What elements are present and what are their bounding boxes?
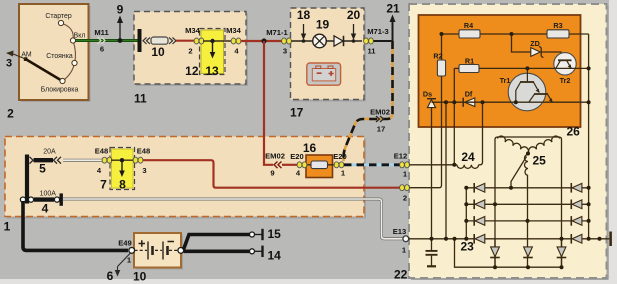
label M11 and pin 6 xyxy=(94,28,109,54)
resistor R3 xyxy=(547,21,569,38)
connector E48 pin 4 xyxy=(95,147,112,176)
wire 21 arrow up xyxy=(386,2,400,42)
label 23 xyxy=(461,240,475,254)
stator winding right xyxy=(529,136,560,153)
node Tr1 collector on lower row xyxy=(514,100,518,104)
svg-text:E13: E13 xyxy=(393,227,407,236)
svg-text:14: 14 xyxy=(268,249,282,263)
wire M11 (green) xyxy=(76,39,139,42)
wire R1 row through Tr2 to right rail xyxy=(479,67,589,69)
svg-text:19: 19 xyxy=(316,18,330,32)
svg-text:20A: 20A xyxy=(43,149,56,156)
svg-text:9: 9 xyxy=(270,169,274,178)
svg-text:11: 11 xyxy=(134,92,147,106)
labels M34 and pins xyxy=(185,26,242,56)
svg-text:M11: M11 xyxy=(94,28,109,37)
box 16 (orange, noise filter) xyxy=(303,155,336,178)
svg-text:17: 17 xyxy=(290,106,304,120)
connector EM02 pin 17 xyxy=(370,108,390,134)
rectifier diode D7 (row3 right) xyxy=(571,216,582,226)
wire 15 (thick black up-right) xyxy=(184,227,282,250)
svg-text:3: 3 xyxy=(283,47,287,56)
wire ZD drop from top rail xyxy=(512,34,531,52)
wire top rail of regulator xyxy=(442,33,589,35)
svg-text:2: 2 xyxy=(188,47,192,56)
box 26 (regulator, orange) xyxy=(419,15,581,127)
transistor Tr1 (darlington) xyxy=(500,68,553,110)
svg-text:Вкл: Вкл xyxy=(74,33,86,40)
node in box 8 with down arrow xyxy=(119,158,125,177)
svg-text:6: 6 xyxy=(107,269,114,283)
svg-text:1: 1 xyxy=(4,220,11,234)
node junction M11/9 xyxy=(118,38,123,43)
svg-text:M34: M34 xyxy=(226,26,242,35)
switch contact Starter xyxy=(58,20,63,25)
svg-text:R1: R1 xyxy=(465,57,474,66)
capacitor plates xyxy=(426,251,438,266)
connector E20 pin 4 xyxy=(290,152,307,178)
box 17 (dashed) xyxy=(291,8,367,102)
battery bus bar (thick) xyxy=(25,155,29,204)
connector E20 pin 1 xyxy=(333,152,347,178)
rectifier diode D4 (row4 left) xyxy=(474,234,485,244)
svg-text:Tr2: Tr2 xyxy=(560,76,571,85)
ignition switch arc xyxy=(61,23,76,81)
node M71-1 junction xyxy=(261,38,266,43)
wire Ds-Df row through Tr1 to right rail xyxy=(432,101,589,103)
connector M34 pin 4 xyxy=(231,38,241,44)
connector E13 pin 1 xyxy=(393,227,409,255)
svg-text:ZD: ZD xyxy=(530,39,540,48)
connector M34 pin 2 xyxy=(194,38,204,44)
diode in box 17 xyxy=(334,36,344,46)
wire M34 to M71 junction (red) xyxy=(241,40,283,42)
wire 3 to arrow left xyxy=(6,51,26,70)
junction dots alternator xyxy=(430,32,602,269)
node in box 13 with down arrow xyxy=(210,39,216,59)
wire R1 left riser to rotor node xyxy=(453,68,455,164)
arrow 20 into wire xyxy=(347,8,361,43)
svg-text:11: 11 xyxy=(367,47,376,56)
svg-text:22: 22 xyxy=(394,268,408,282)
svg-text:24: 24 xyxy=(461,150,475,164)
wire fuse4 to E13 (gray double) xyxy=(63,199,403,239)
svg-text:13: 13 xyxy=(205,64,219,78)
wire 14 (thick black right) xyxy=(184,246,281,263)
svg-text:18: 18 xyxy=(297,8,311,22)
svg-text:Ds: Ds xyxy=(423,90,432,99)
connector E48 pin 3 xyxy=(133,147,150,176)
wire E12-1 to rotor coil xyxy=(409,164,457,166)
svg-text:5: 5 xyxy=(39,162,46,176)
wire regulator mid drop to ground rail xyxy=(445,102,447,239)
rectifier diode D10 (bottom center) xyxy=(523,247,533,258)
battery polarity signs xyxy=(139,240,175,247)
svg-text:7: 7 xyxy=(100,178,107,192)
connector E49 pin 1 xyxy=(118,239,134,265)
switch contact Blokirovka xyxy=(60,78,65,83)
fuse 5 (20A) xyxy=(30,149,62,176)
switch contact Vkl xyxy=(70,38,75,43)
wire left branch R2 / E12-2 riser xyxy=(409,34,441,188)
svg-text:12: 12 xyxy=(185,64,199,78)
fuse 10 body xyxy=(143,37,176,59)
fuse 4 (100A) xyxy=(28,190,63,215)
arrow 18 into wire xyxy=(297,8,311,43)
svg-text:2: 2 xyxy=(7,107,14,121)
rectifier diode D2 (row2 left) xyxy=(474,200,485,210)
rectifier diode D3 (row3 left) xyxy=(474,216,485,226)
label 24 xyxy=(461,150,475,164)
svg-text:17: 17 xyxy=(377,125,385,134)
wire E20-1 to E12-1 (blue/black dashed) xyxy=(344,163,400,166)
box 13 (yellow relay) xyxy=(201,30,224,74)
svg-text:9: 9 xyxy=(117,3,124,17)
box 22 (alternator, dashed gray) xyxy=(409,4,609,280)
svg-text:Df: Df xyxy=(465,90,473,99)
rectifier diode D6 (row2 right) xyxy=(571,200,582,210)
bridge left rail xyxy=(465,188,467,239)
svg-text:6: 6 xyxy=(100,45,104,54)
label 25 xyxy=(533,154,547,168)
svg-text:R4: R4 xyxy=(464,21,473,30)
label 10 battery xyxy=(133,270,147,284)
svg-text:3: 3 xyxy=(6,58,12,70)
svg-text:25: 25 xyxy=(533,154,547,168)
capacitor leads xyxy=(431,239,433,266)
connector EM02 pin 9 xyxy=(265,152,285,178)
rectifier diode D9 (bottom left) xyxy=(490,247,500,258)
wire rotor coil to regulator (Df node) xyxy=(479,102,483,165)
svg-text:4: 4 xyxy=(42,202,49,216)
switch labels xyxy=(21,13,85,94)
switch contact Stoyanka xyxy=(72,60,77,65)
stator winding left xyxy=(497,136,528,153)
wire right rail (regulator/rectifier) xyxy=(588,34,590,239)
rectifier diode D5 (row1 right) xyxy=(571,183,582,193)
node terminal on bus (battery feed) xyxy=(20,197,25,202)
svg-text:E12: E12 xyxy=(394,152,408,161)
wire M71-3 to corner (black) xyxy=(374,40,393,42)
label 22 xyxy=(394,268,408,282)
svg-text:10: 10 xyxy=(151,45,165,59)
svg-text:R3: R3 xyxy=(553,21,562,30)
lamp 19 xyxy=(313,18,330,48)
box 2 (ignition switch) xyxy=(19,4,91,102)
battery box 10 xyxy=(134,233,183,270)
stator neutral tap xyxy=(511,157,527,188)
svg-text:20: 20 xyxy=(347,8,361,22)
label 2 xyxy=(7,107,14,121)
label 11 xyxy=(134,92,147,106)
svg-text:R2: R2 xyxy=(433,52,442,61)
diode Ds xyxy=(423,90,436,108)
wire ZD to Tr2 base xyxy=(541,52,561,60)
box 12 (dashed) xyxy=(200,29,226,75)
rectifier diode D1 (row1 left) xyxy=(474,183,485,193)
stator winding bottom xyxy=(525,155,529,239)
zener diode ZD xyxy=(530,39,543,58)
svg-text:16: 16 xyxy=(303,141,317,155)
wire to EM02-17 (yellow/black dashed) xyxy=(344,41,393,161)
fuse 10 input bar xyxy=(138,29,142,52)
resistor R4 xyxy=(459,21,480,38)
battery output node xyxy=(178,248,184,254)
wire Ds cathode lead down xyxy=(431,108,433,239)
bridge row 3 xyxy=(466,220,588,222)
connector M71-1 xyxy=(266,28,291,56)
connector M71-3 xyxy=(364,27,389,56)
svg-text:Стоянка: Стоянка xyxy=(46,53,73,60)
wire M71 junction down to EM02-9 (red) xyxy=(264,41,273,165)
svg-text:M34: M34 xyxy=(185,26,201,35)
box 1 (fuse block, dashed) xyxy=(5,137,366,219)
svg-text:Блокировка: Блокировка xyxy=(41,87,79,94)
svg-text:10: 10 xyxy=(133,270,147,284)
chassis terminal bar xyxy=(609,232,612,247)
svg-text:23: 23 xyxy=(461,240,475,254)
svg-text:E48: E48 xyxy=(95,147,109,156)
rotor coil 24 xyxy=(457,165,479,169)
wire through box 13 xyxy=(203,40,233,42)
rectifier diode D11 (bottom right) xyxy=(557,247,567,258)
connector E12 pin 2 xyxy=(400,185,410,203)
battery cells symbol xyxy=(135,242,179,260)
svg-text:26: 26 xyxy=(567,125,581,139)
svg-text:EM02: EM02 xyxy=(370,108,390,117)
connector M11 chevrons xyxy=(98,37,106,44)
svg-text:E49: E49 xyxy=(118,239,132,248)
box 8 (yellow relay) xyxy=(112,149,134,188)
wire bus to battery (thick black) xyxy=(23,201,128,250)
wire 6 (ground ref from E49) xyxy=(107,253,131,283)
svg-text:3: 3 xyxy=(142,166,146,175)
svg-text:E20: E20 xyxy=(333,152,347,161)
box 7 dashed around relay 8 xyxy=(110,148,135,190)
wire EM02-9 to E20-4 (red) xyxy=(282,164,298,166)
wire 9 arrow up xyxy=(117,3,124,41)
svg-text:Стартер: Стартер xyxy=(45,13,71,20)
wire in box 17 xyxy=(292,40,363,42)
svg-text:21: 21 xyxy=(386,2,400,16)
label 26 xyxy=(567,125,581,139)
resistor R2 (vertical) xyxy=(433,52,445,77)
stator phase drop center continuation xyxy=(495,239,562,267)
bridge bottom rail xyxy=(455,239,562,267)
label 17 xyxy=(290,106,304,120)
stator frame left phase xyxy=(495,137,562,267)
bridge row 2 xyxy=(466,203,588,205)
battery icon in box 17 xyxy=(307,63,341,85)
labels 12 and 13 xyxy=(185,64,219,78)
bridge row 1 xyxy=(466,187,588,189)
svg-text:15: 15 xyxy=(268,227,282,241)
wire E48-3 to E12-2 (red) xyxy=(143,160,400,188)
label 1 xyxy=(4,220,11,234)
box 11 (dashed) xyxy=(134,12,248,87)
transistor Tr2 xyxy=(554,53,576,85)
node Tr1 base on R1 row xyxy=(525,66,529,70)
svg-text:8: 8 xyxy=(119,178,126,192)
svg-text:E48: E48 xyxy=(137,147,151,156)
labels 7 and 8 xyxy=(100,178,126,192)
wire R1 row xyxy=(454,67,459,69)
label 16 xyxy=(303,141,317,155)
bridge row 4 / ground rail to chassis xyxy=(409,238,610,240)
resistor R1 xyxy=(459,57,479,73)
wire fuse5 to E48 (gray double) xyxy=(63,159,103,162)
svg-text:EM02: EM02 xyxy=(265,152,285,161)
switch wiper (AM to Blokirovka) xyxy=(24,57,62,80)
svg-text:M71-1: M71-1 xyxy=(266,28,288,37)
svg-text:Tr1: Tr1 xyxy=(500,76,511,85)
connector E12 pin 1 xyxy=(394,152,410,179)
svg-text:M71-3: M71-3 xyxy=(367,27,389,36)
rectifier diode D8 (row4 right) xyxy=(571,234,582,244)
svg-text:2: 2 xyxy=(403,194,407,203)
svg-text:E20: E20 xyxy=(290,152,304,161)
wire fuse to M34 (red) xyxy=(176,40,196,42)
svg-text:100A: 100A xyxy=(40,190,57,197)
diode Df xyxy=(463,90,475,107)
wire through box 8 xyxy=(111,159,135,161)
